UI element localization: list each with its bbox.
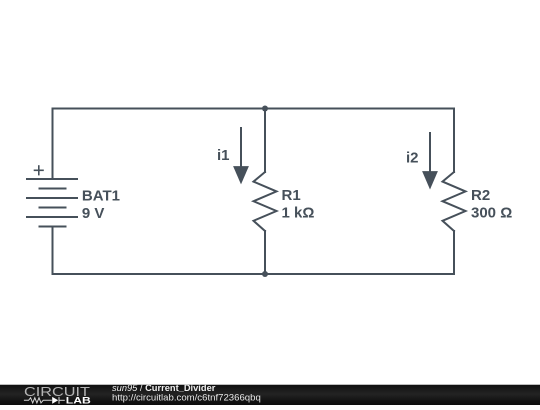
svg-text:BAT1: BAT1 bbox=[82, 188, 120, 205]
node: top junction bbox=[262, 106, 268, 112]
svg-text:sun95 / Current_Divider: sun95 / Current_Divider bbox=[112, 383, 216, 393]
wire: R1 top lead bbox=[264, 109, 266, 173]
wire: right vertical (top rail to R2 top lead) bbox=[453, 109, 455, 173]
CircuitLab logo wire with resistor and diode bbox=[24, 397, 65, 404]
svg-text:http://circuitlab.com/c6tnf723: http://circuitlab.com/c6tnf72366qbq bbox=[112, 393, 261, 404]
wire: left vertical (battery - terminal to bottom rail) bbox=[52, 227, 54, 275]
svg-text:R2: R2 bbox=[471, 187, 490, 204]
svg-text:R1: R1 bbox=[282, 187, 301, 204]
current arrow i1 bbox=[233, 127, 249, 184]
svg-text:300 Ω: 300 Ω bbox=[471, 204, 512, 221]
wire: top rail bbox=[53, 108, 455, 110]
wire: left vertical (top rail to battery + terminal) bbox=[52, 109, 54, 180]
battery BAT1 plus sign bbox=[35, 166, 44, 175]
svg-text:i2: i2 bbox=[406, 149, 419, 166]
wire: bottom rail bbox=[53, 273, 455, 275]
resistor R2 zigzag bbox=[443, 172, 466, 231]
svg-text:1 kΩ: 1 kΩ bbox=[282, 204, 315, 221]
battery BAT1 plates bbox=[27, 179, 77, 227]
wire: R1 bottom lead bbox=[264, 231, 266, 274]
svg-text:i1: i1 bbox=[217, 147, 230, 164]
svg-text:LAB: LAB bbox=[66, 396, 91, 405]
node: bottom junction bbox=[262, 271, 268, 277]
wire: R2 bottom lead bbox=[453, 231, 455, 274]
resistor R1 zigzag bbox=[254, 172, 277, 231]
svg-text:9 V: 9 V bbox=[82, 205, 105, 222]
current arrow i2 bbox=[422, 132, 438, 190]
